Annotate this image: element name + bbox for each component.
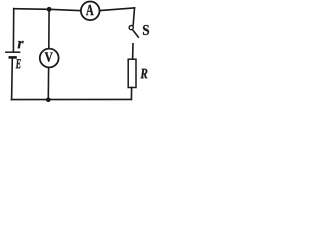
wire voltmeter lower lead xyxy=(47,67,49,99)
switch S pivot circle xyxy=(129,26,133,30)
label r (internal resistance) xyxy=(18,41,24,48)
wire top left (battery to ammeter) xyxy=(14,9,81,11)
label V (voltmeter) xyxy=(45,52,53,61)
battery long plate (E) xyxy=(5,51,20,53)
wire right vertical above switch xyxy=(133,8,134,25)
resistor R box xyxy=(128,59,136,87)
wire resistor to bottom xyxy=(130,88,132,100)
node top junction xyxy=(47,7,52,12)
label R (resistor value) xyxy=(140,69,147,79)
label S (switch) xyxy=(143,25,149,35)
wire switch to resistor xyxy=(132,44,134,59)
switch S blade xyxy=(133,30,139,38)
battery short thick plate xyxy=(9,56,17,59)
node bottom junction xyxy=(46,98,51,103)
label E (emf) xyxy=(16,59,21,68)
wire voltmeter upper lead xyxy=(48,9,50,48)
wire bottom xyxy=(12,98,132,100)
voltmeter V xyxy=(40,49,59,68)
wire top right (ammeter to switch corner) xyxy=(100,8,135,11)
ammeter A xyxy=(81,2,100,21)
label A (ammeter) xyxy=(86,5,94,15)
wire left vertical lower (battery to bottom) xyxy=(11,59,14,100)
wire left vertical upper (to battery) xyxy=(12,9,14,52)
